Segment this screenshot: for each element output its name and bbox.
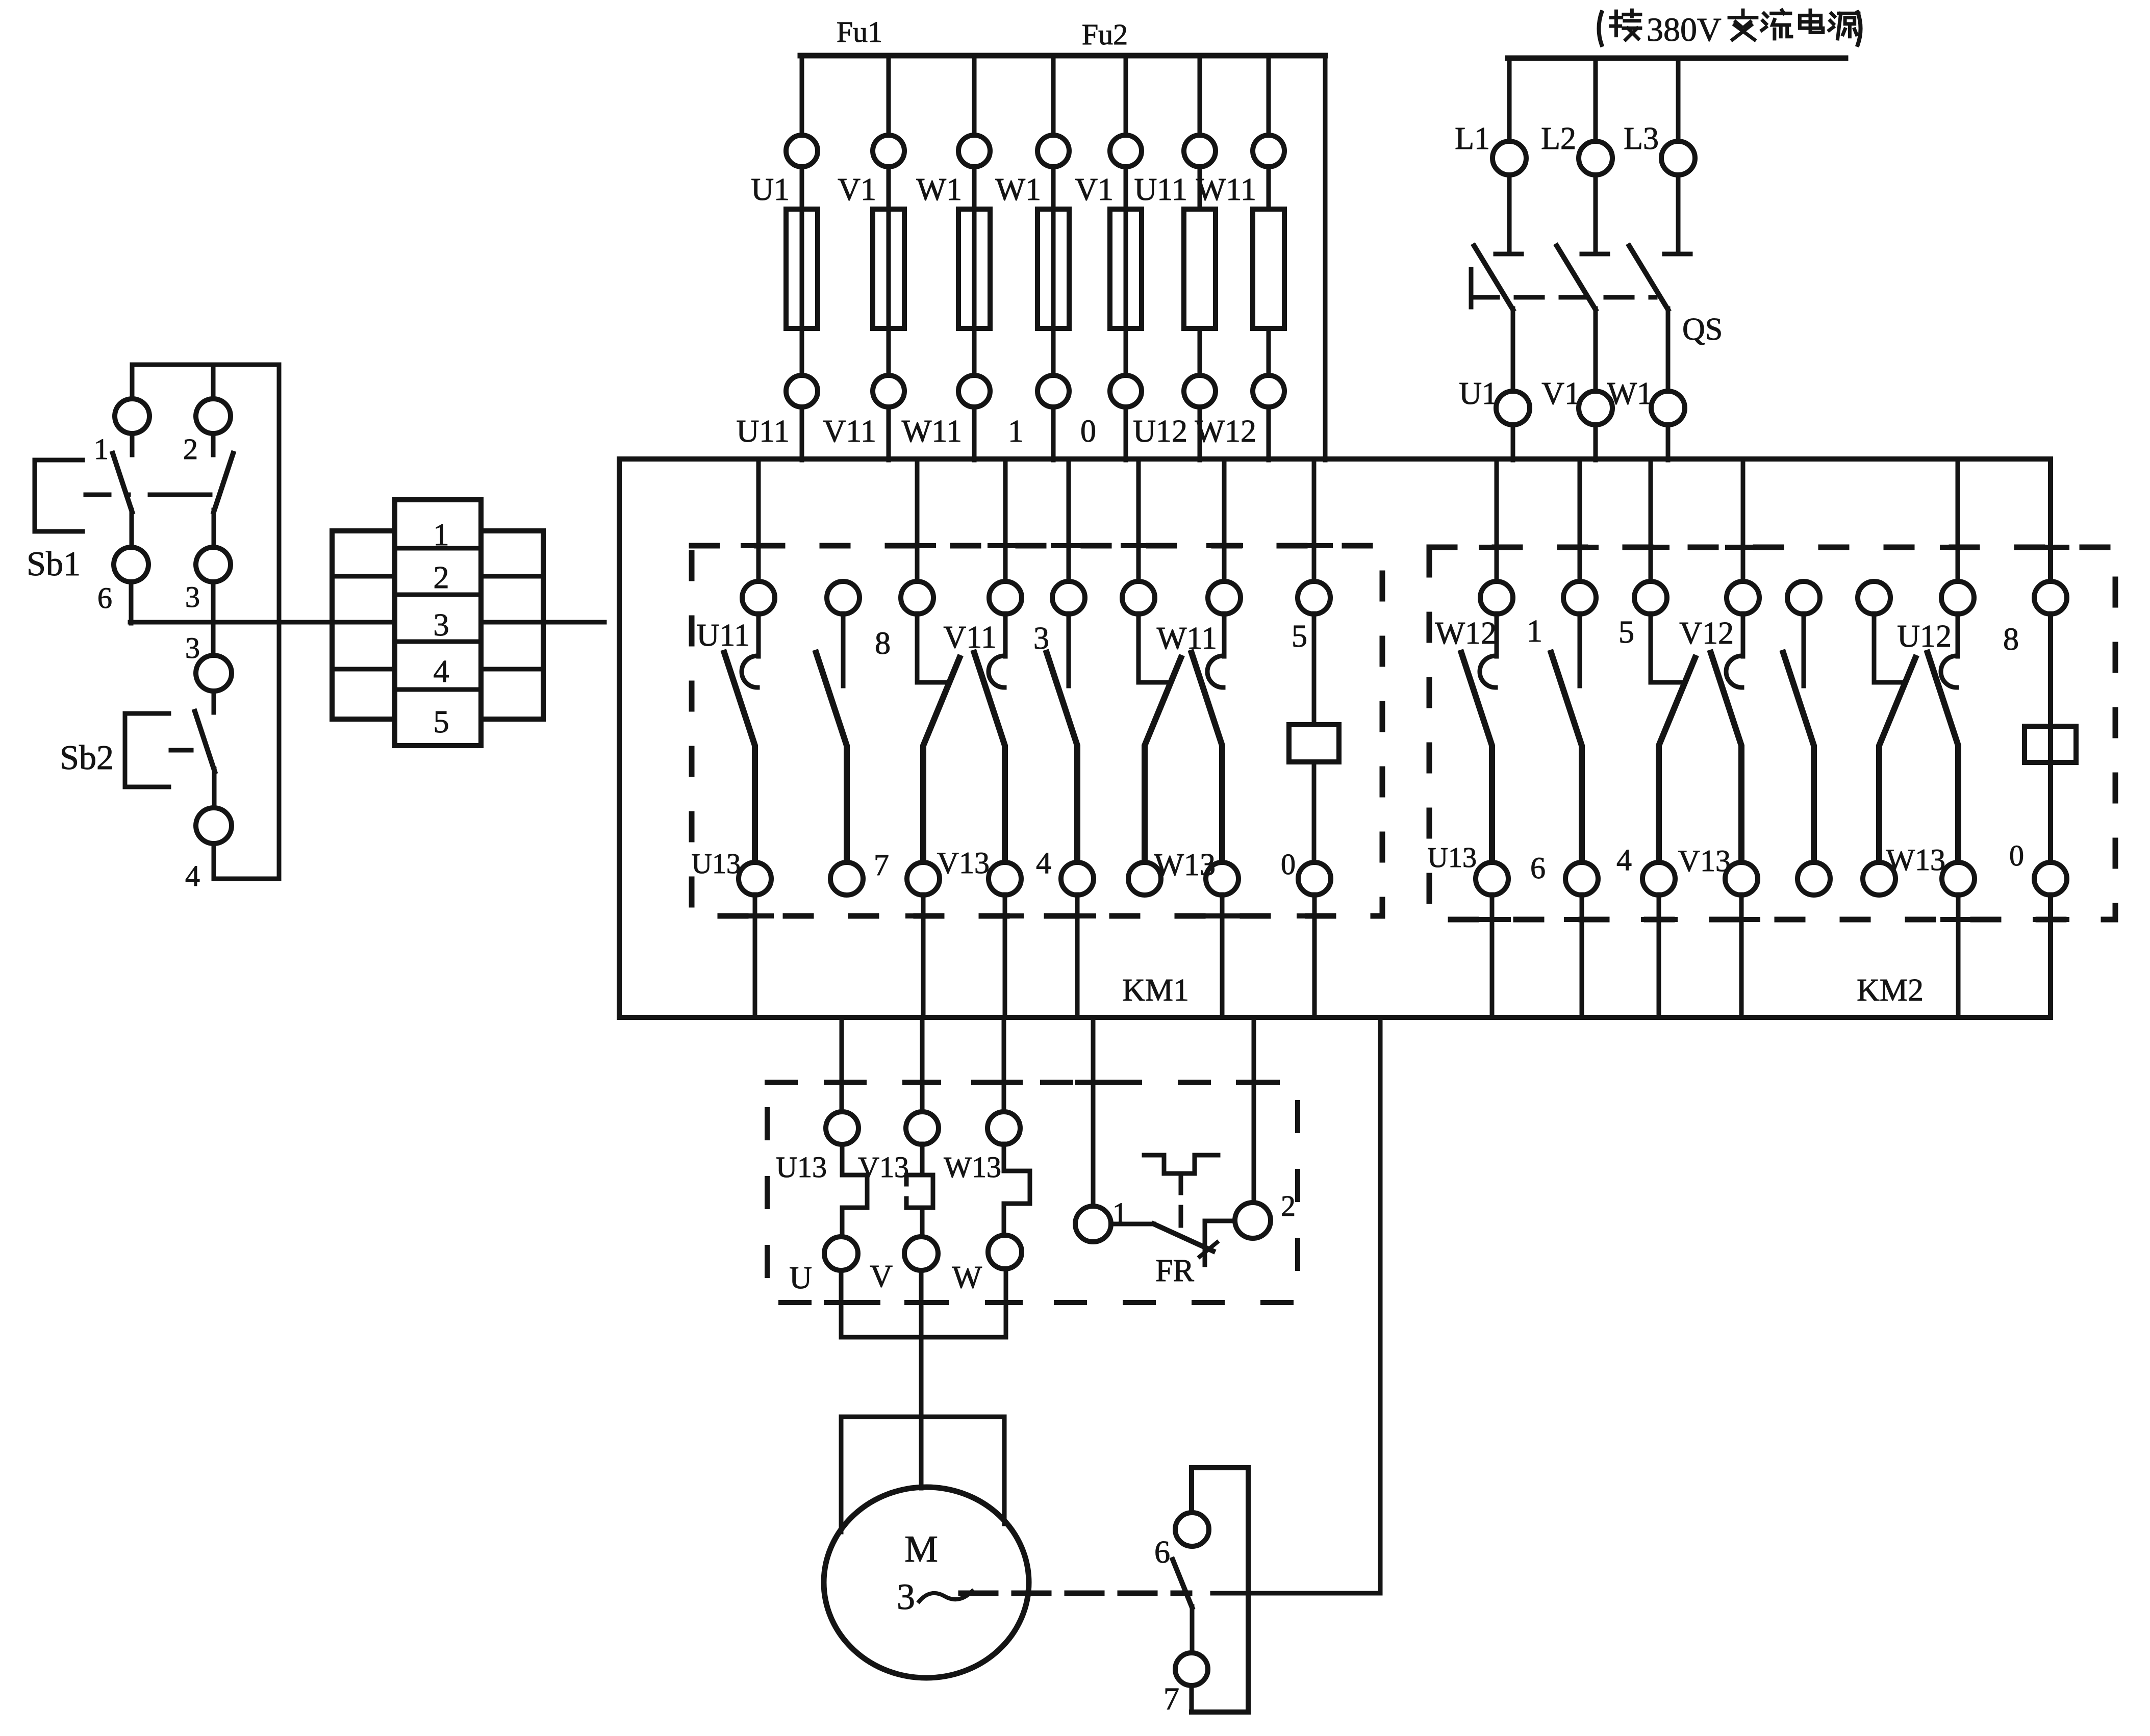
wire bus right drop bbox=[1323, 56, 1328, 460]
winding jog V left flag2 bbox=[906, 1198, 922, 1208]
terminal circle V bbox=[904, 1237, 938, 1270]
contact terminal KM1 pole 5 bottom bbox=[1061, 862, 1094, 895]
wire Sb2 bottom link bbox=[214, 877, 279, 881]
svg-text:Sb2: Sb2 bbox=[60, 738, 114, 777]
contact terminal KM1 pole 3 bottom bbox=[907, 862, 940, 895]
svg-text:V13: V13 bbox=[937, 846, 990, 880]
FR heater element bbox=[1144, 1155, 1218, 1173]
svg-text:0: 0 bbox=[1080, 414, 1096, 449]
wire Sb2 blade to terminal 4 bbox=[212, 769, 217, 808]
fuse FU2 element wire bbox=[887, 209, 891, 328]
label 380V AC supply (Chinese) bbox=[1599, 10, 1860, 48]
svg-text:W13: W13 bbox=[944, 1151, 1001, 1184]
fixed contact lead KM1 pole 6 bbox=[1139, 614, 1169, 682]
svg-text:V13: V13 bbox=[858, 1151, 909, 1184]
fuse FU3 body bbox=[958, 209, 990, 328]
speed switch blade bbox=[1173, 1560, 1192, 1607]
moving contact blade KM2 pole 4 bbox=[1711, 653, 1741, 863]
wire Sb1 blade to terminal 3 bbox=[212, 510, 216, 547]
wire bus to fuse FU5 top terminal bbox=[1124, 56, 1128, 136]
svg-text:W1: W1 bbox=[916, 172, 962, 207]
dash tick KM1 coil top crossing bbox=[1299, 543, 1330, 548]
terminal circle fuse FU4 top bbox=[1038, 135, 1069, 167]
svg-text:U11: U11 bbox=[1134, 172, 1187, 207]
wire KM1 pole 7 bottom to panel bbox=[1220, 895, 1225, 1017]
terminal strip left column bbox=[332, 531, 395, 719]
wire KM2 pole 7 bottom to panel bbox=[1956, 895, 1961, 1017]
wire Sb1 right loop vertical bbox=[277, 365, 282, 879]
dash tick KM1 pole 1 top crossing bbox=[743, 543, 775, 548]
svg-text:U1: U1 bbox=[751, 172, 790, 207]
wire panel edge to KM2 coil top bbox=[2048, 459, 2053, 582]
terminal circle U bbox=[824, 1237, 858, 1270]
terminal circle V13 bbox=[906, 1112, 939, 1144]
wire L2 to QS contact bbox=[1593, 175, 1598, 252]
dash tick KM1 pole 7 top crossing bbox=[1209, 543, 1241, 548]
moving contact blade KM2 pole 5 bbox=[1783, 653, 1814, 863]
svg-text:5: 5 bbox=[434, 705, 449, 739]
dash tick crossing bbox=[1078, 1080, 1109, 1085]
svg-text:W13: W13 bbox=[1154, 848, 1216, 882]
FR terminal circle 1 bbox=[1075, 1206, 1111, 1242]
contact terminal KM2 pole 7 top bbox=[1941, 581, 1974, 614]
svg-text:7: 7 bbox=[1163, 1682, 1179, 1717]
speed switch terminal 7 bbox=[1175, 1653, 1208, 1686]
fixed contact lead KM1 pole 7 bbox=[1222, 614, 1227, 656]
contact terminal KM2 pole 4 top bbox=[1727, 581, 1759, 614]
fixed contact hook KM2 pole 7 bbox=[1941, 656, 1957, 687]
terminal strip cell line bbox=[332, 574, 395, 579]
winding jog V left flag bbox=[906, 1175, 922, 1184]
terminal circle Sb2-3 bbox=[196, 655, 232, 691]
svg-text:Fu1: Fu1 bbox=[837, 15, 882, 48]
dash tick KM1 pole 3 bottom crossing bbox=[908, 913, 940, 918]
svg-text:8: 8 bbox=[875, 626, 891, 661]
KM1 dashed outline bbox=[692, 546, 1382, 916]
svg-text:V12: V12 bbox=[1679, 616, 1734, 651]
svg-text:2: 2 bbox=[1281, 1189, 1296, 1222]
svg-text:1: 1 bbox=[434, 518, 449, 552]
motor terminal dashed box bbox=[767, 1082, 1298, 1303]
contact terminal KM2 pole 5 top bbox=[1787, 581, 1820, 614]
panel enclosure box bbox=[619, 459, 2051, 1017]
svg-text:U11: U11 bbox=[697, 618, 750, 653]
dash tick KM1 pole 5 top crossing bbox=[1053, 543, 1085, 548]
wire fuse FU5 body to bottom terminal bbox=[1124, 328, 1128, 375]
terminal strip cell line bbox=[332, 667, 395, 672]
wire bus to fuse FU7 top terminal bbox=[1267, 56, 1271, 136]
dash tick KM2 pole 3 bottom crossing bbox=[1643, 917, 1675, 922]
svg-text:U: U bbox=[789, 1261, 812, 1295]
wire U-W link bbox=[841, 1335, 1006, 1340]
terminal circle W1 bbox=[1651, 391, 1685, 425]
svg-text:8: 8 bbox=[2003, 622, 2019, 657]
wire fuse FU3 terminal to body bbox=[972, 167, 977, 209]
FR fixed lead left bbox=[1111, 1222, 1154, 1227]
wire panel to KM1 pole 1 top bbox=[756, 459, 761, 582]
wire Sb1 top link bbox=[132, 363, 279, 367]
wire panel to KM1 pole 3 top bbox=[915, 459, 920, 582]
wire U down bbox=[839, 1270, 844, 1337]
wire fuse FU7 bottom terminal to panel bbox=[1267, 407, 1271, 460]
contact terminal KM1 pole 6 top bbox=[1122, 581, 1155, 614]
wire fuse FU3 bottom terminal to panel bbox=[972, 407, 977, 460]
dash tick crossing bbox=[1238, 1080, 1270, 1085]
wire panel to KM2 pole 4 top bbox=[1741, 459, 1746, 582]
svg-text:V11: V11 bbox=[944, 620, 997, 655]
fixed contact lead KM2 pole 7 bbox=[1956, 614, 1960, 656]
terminal circle L1 bbox=[1493, 141, 1526, 175]
wire fuse FU1 terminal to body bbox=[800, 167, 804, 209]
wire panel to KM1 pole 7 top bbox=[1222, 459, 1227, 582]
svg-text:W12: W12 bbox=[1195, 414, 1256, 449]
fixed contact hook KM2 pole 1 bbox=[1480, 656, 1496, 687]
fixed contact lead KM2 pole 4 bbox=[1741, 614, 1746, 656]
dash tick KM1 coil bottom crossing bbox=[1299, 913, 1331, 918]
wire KM2 coil bottom to panel corner bbox=[2048, 895, 2053, 1017]
contact terminal KM1 pole 2 top bbox=[827, 581, 859, 614]
wire Sb2-3 lead bbox=[212, 691, 216, 712]
terminal circle W bbox=[988, 1235, 1022, 1269]
wire KM2 pole 3 bottom to panel bbox=[1657, 895, 1661, 1017]
fuse FU4 element wire bbox=[1051, 209, 1056, 328]
contact terminal KM2 pole 1 bottom bbox=[1476, 862, 1508, 895]
Sb1 linkage bar bbox=[150, 493, 210, 497]
contact terminal KM1 pole 3 top bbox=[901, 581, 933, 614]
fixed contact lead KM2 pole 5 bbox=[1802, 614, 1806, 686]
terminal circle fuse FU6 top bbox=[1184, 135, 1216, 167]
fuse FU4 body bbox=[1038, 209, 1069, 328]
QS linkage dashed bbox=[1471, 295, 1655, 300]
dash tick KM1 pole 6 top crossing bbox=[1123, 543, 1155, 548]
FR terminal circle 2 bbox=[1235, 1203, 1271, 1238]
svg-text:3: 3 bbox=[185, 631, 200, 665]
FR actuator dashed stem bbox=[1179, 1175, 1183, 1226]
terminal circle Sb1-6 bbox=[114, 547, 148, 582]
wire panel to KM1 pole 4 top bbox=[1003, 459, 1008, 582]
svg-text:L3: L3 bbox=[1624, 121, 1659, 156]
svg-text:V1: V1 bbox=[838, 172, 876, 207]
wire blade to terminal 7 bbox=[1190, 1606, 1195, 1653]
svg-text:KM1: KM1 bbox=[1122, 973, 1189, 1008]
dash tick crossing bbox=[907, 1300, 939, 1305]
fuse FU5 body bbox=[1110, 209, 1142, 328]
svg-text:380V: 380V bbox=[1647, 11, 1722, 48]
wire fuse FU1 bottom terminal to panel bbox=[800, 407, 804, 460]
contact terminal KM1 pole 4 top bbox=[989, 581, 1022, 614]
winding jog V bbox=[922, 1144, 933, 1239]
wire KM2 coil lead bottom bbox=[2048, 762, 2053, 863]
terminal strip cell line bbox=[395, 640, 481, 644]
contact terminal KM2 pole 4 bottom bbox=[1725, 862, 1758, 895]
svg-text:FR: FR bbox=[1155, 1254, 1194, 1288]
KM2 dashed outline bbox=[1429, 547, 2115, 920]
dash tick KM2 pole 4 bottom crossing bbox=[1726, 917, 1758, 922]
fixed contact lead KM1 pole 2 bbox=[841, 614, 846, 686]
terminal circle V1 bbox=[1579, 391, 1612, 425]
wire KM1 pole 1 bottom to panel bbox=[753, 895, 757, 1017]
wire fuse FU2 body to bottom terminal bbox=[887, 328, 891, 375]
wire panel to motor terminal V13 bbox=[920, 1017, 925, 1112]
FR contact blade bbox=[1154, 1224, 1213, 1251]
svg-text:V1: V1 bbox=[1075, 172, 1114, 207]
svg-text:6: 6 bbox=[97, 581, 112, 615]
wire fuse FU4 bottom terminal to panel bbox=[1051, 407, 1056, 460]
fixed contact lead KM1 pole 5 bbox=[1067, 614, 1071, 686]
wire linkage to speed switch bbox=[1212, 1591, 1380, 1596]
svg-text:0: 0 bbox=[2009, 839, 2024, 872]
fixed contact lead KM1 pole 3 bbox=[917, 614, 948, 682]
moving contact blade KM1 pole 4 bbox=[974, 653, 1005, 863]
moving contact blade KM2 pole 6 bbox=[1879, 658, 1915, 863]
coil terminal KM1 bottom bbox=[1298, 862, 1331, 895]
terminal circle fuse FU5 bottom bbox=[1110, 375, 1142, 407]
wire KM2 pole 2 bottom to panel bbox=[1580, 895, 1584, 1017]
svg-text:6: 6 bbox=[1154, 1535, 1170, 1570]
contact terminal KM1 pole 6 bottom bbox=[1128, 862, 1161, 895]
fixed contact lead KM1 pole 1 bbox=[756, 614, 761, 656]
svg-text:V11: V11 bbox=[823, 414, 876, 449]
wire Sb1-3 to Sb2-3 bbox=[211, 582, 216, 656]
fixed contact hook KM2 pole 4 bbox=[1726, 656, 1742, 687]
dash tick crossing bbox=[989, 1080, 1020, 1085]
Sb1 blade left (NC) bbox=[113, 453, 132, 512]
contact terminal KM1 pole 7 bottom bbox=[1206, 862, 1238, 895]
svg-text:6: 6 bbox=[1530, 851, 1546, 885]
terminal strip center column bbox=[395, 500, 481, 746]
svg-text:V: V bbox=[870, 1259, 893, 1294]
dash tick crossing bbox=[907, 1080, 939, 1085]
wire KM1 coil lead bottom bbox=[1312, 762, 1317, 863]
wire panel to KM2 pole 1 top bbox=[1495, 459, 1499, 582]
svg-text:W1: W1 bbox=[1607, 376, 1653, 411]
wire Sb2-4 down bbox=[212, 844, 216, 879]
wire KM1 pole 3 bottom to panel bbox=[921, 895, 926, 1017]
QS blade U1 pole bbox=[1474, 246, 1513, 310]
svg-text:L1: L1 bbox=[1455, 121, 1490, 156]
svg-text:3: 3 bbox=[185, 580, 200, 614]
terminal circle Sb2-4 bbox=[196, 808, 232, 844]
wire supply to L2 terminal bbox=[1593, 58, 1598, 141]
wire panel to KM2 pole 7 top bbox=[1956, 459, 1960, 582]
QS blade V1 pole bbox=[1557, 246, 1596, 310]
Sb1 linkage dashed bbox=[86, 493, 129, 497]
moving contact blade KM1 pole 5 bbox=[1047, 653, 1077, 863]
wire V1 terminal to panel bbox=[1593, 425, 1598, 460]
dash tick KM2 pole 7 top crossing bbox=[1942, 545, 1974, 550]
dash tick KM2 coil bottom crossing bbox=[2035, 917, 2067, 922]
svg-text:4: 4 bbox=[185, 859, 200, 892]
terminal strip cell line bbox=[395, 593, 481, 597]
wire control bus bbox=[130, 620, 395, 625]
contact terminal KM2 pole 5 bottom bbox=[1798, 862, 1830, 895]
terminal circle fuse FU5 top bbox=[1110, 135, 1142, 167]
fuse FU6 body bbox=[1184, 209, 1216, 328]
terminal circle Sb1-2 bbox=[196, 399, 231, 433]
contact terminal KM1 pole 7 top bbox=[1208, 581, 1241, 614]
terminal circle fuse FU3 bottom bbox=[958, 375, 990, 407]
fixed contact lead KM2 pole 2 bbox=[1578, 614, 1582, 686]
wire Sb1-6 to control bus bbox=[129, 582, 134, 623]
svg-text:Fu2: Fu2 bbox=[1082, 18, 1128, 51]
dash tick KM2 pole 7 bottom crossing bbox=[1943, 917, 1975, 922]
coil KM1 bbox=[1289, 725, 1339, 762]
wire fuse FU6 terminal to body bbox=[1198, 167, 1202, 209]
QS fixed contact bar L3 bbox=[1664, 252, 1690, 257]
svg-text:4: 4 bbox=[1036, 846, 1051, 880]
svg-text:1: 1 bbox=[1527, 614, 1542, 649]
wire fuse FU1 body to bottom terminal bbox=[800, 328, 804, 375]
contact terminal KM1 pole 5 top bbox=[1052, 581, 1085, 614]
wire fuse FU7 terminal to body bbox=[1267, 167, 1271, 209]
svg-text:W13: W13 bbox=[1886, 843, 1945, 877]
fixed contact lead KM1 pole 4 bbox=[1003, 614, 1008, 656]
fixed contact hook KM1 pole 1 bbox=[742, 656, 757, 687]
terminal strip cell line bbox=[481, 574, 543, 579]
FR fixed lead right bbox=[1205, 1221, 1235, 1265]
wire KM2 pole 4 bottom to panel bbox=[1739, 895, 1744, 1017]
wire QS blade to U1 terminal bbox=[1511, 309, 1515, 392]
contact terminal KM2 pole 2 top bbox=[1563, 581, 1596, 614]
moving contact blade KM1 pole 2 bbox=[816, 653, 847, 863]
terminal circle fuse FU1 bottom bbox=[786, 375, 818, 407]
coil KM2 bbox=[2025, 726, 2076, 762]
QS blade W1 pole bbox=[1629, 246, 1668, 310]
contact terminal KM2 pole 1 top bbox=[1480, 581, 1513, 614]
contact terminal KM1 pole 2 bottom bbox=[830, 862, 863, 895]
wire V to motor bbox=[919, 1271, 924, 1488]
wire U1 terminal to panel bbox=[1511, 425, 1515, 460]
svg-text:W11: W11 bbox=[1157, 621, 1217, 656]
wire bus to fuse FU3 top terminal bbox=[972, 56, 977, 136]
dash tick KM2 pole 2 bottom crossing bbox=[1566, 917, 1598, 922]
wire fuse FU4 terminal to body bbox=[1051, 167, 1056, 209]
moving contact blade KM1 pole 3 bbox=[923, 658, 959, 863]
terminal circle fuse FU1 top bbox=[786, 135, 818, 167]
contact terminal KM1 pole 1 top bbox=[742, 581, 775, 614]
fixed contact lead KM2 pole 6 bbox=[1874, 614, 1905, 682]
wire fuse FU5 terminal to body bbox=[1124, 167, 1128, 209]
svg-text:2: 2 bbox=[434, 560, 449, 595]
QS fixed contact bar L1 bbox=[1496, 252, 1522, 257]
moving contact blade KM2 pole 1 bbox=[1461, 653, 1492, 863]
svg-text:3: 3 bbox=[1033, 621, 1049, 656]
dash tick KM2 pole 1 top crossing bbox=[1481, 545, 1513, 550]
svg-text:QS: QS bbox=[1682, 312, 1723, 347]
terminal circle fuse FU2 bottom bbox=[873, 375, 904, 407]
contact terminal KM2 pole 3 top bbox=[1634, 581, 1667, 614]
wire QS blade to V1 terminal bbox=[1593, 309, 1598, 392]
Sb2 linkage dashed bbox=[171, 748, 193, 753]
wire terminal 7 down bbox=[1190, 1686, 1194, 1712]
Sb1 button bracket bbox=[35, 460, 83, 531]
wire panel to KM1 coil top bbox=[1312, 459, 1317, 582]
terminal strip cell line bbox=[395, 546, 481, 551]
svg-text:U13: U13 bbox=[692, 848, 741, 880]
wire panel to FR terminal 1 bbox=[1091, 1017, 1096, 1206]
wire top link to Sb1 contact 2 bbox=[211, 365, 216, 399]
speed switch frame bbox=[1192, 1468, 1248, 1712]
wire fuse FU5 bottom terminal to panel bbox=[1124, 407, 1128, 460]
fixed contact hook KM1 pole 4 bbox=[989, 656, 1004, 687]
wire fuse FU6 bottom terminal to panel bbox=[1198, 407, 1202, 460]
terminal strip cell line bbox=[481, 667, 543, 672]
contact terminal KM2 pole 7 bottom bbox=[1942, 862, 1975, 895]
terminal circle L3 bbox=[1661, 141, 1695, 175]
wire panel to motor terminal W13 bbox=[1002, 1017, 1006, 1112]
wire W down bbox=[1004, 1271, 1008, 1337]
fuse FU1 element wire bbox=[800, 209, 804, 328]
dash tick crossing bbox=[826, 1300, 858, 1305]
svg-text:U11: U11 bbox=[737, 414, 790, 449]
svg-text:U1: U1 bbox=[1459, 376, 1498, 411]
contact terminal KM1 pole 1 bottom bbox=[739, 862, 771, 895]
wire KM1 pole 4 bottom to panel bbox=[1003, 895, 1007, 1017]
svg-text:1: 1 bbox=[94, 432, 109, 466]
wire panel to speed switch bbox=[1378, 1017, 1383, 1593]
moving contact blade KM2 pole 2 bbox=[1551, 653, 1582, 863]
QS operating handle bbox=[1469, 269, 1474, 307]
wire panel to KM2 pole 3 top bbox=[1649, 459, 1653, 582]
wire fuse FU3 body to bottom terminal bbox=[972, 328, 977, 375]
wire control bus right bbox=[481, 620, 604, 625]
wire bus to fuse FU1 top terminal bbox=[800, 56, 804, 136]
terminal circle fuse FU6 bottom bbox=[1184, 375, 1216, 407]
dash tick KM1 pole 4 top crossing bbox=[990, 543, 1022, 548]
wire KM1 coil lead top bbox=[1312, 614, 1317, 725]
wire 380V supply line bbox=[1508, 56, 1845, 61]
wire W1 terminal to panel bbox=[1666, 425, 1671, 460]
svg-text:3: 3 bbox=[434, 608, 449, 643]
fuse FU2 body bbox=[873, 209, 904, 328]
wire KM2 pole 1 bottom to panel bbox=[1490, 895, 1495, 1017]
terminal circle U1 bbox=[1496, 391, 1530, 425]
svg-text:5: 5 bbox=[1618, 615, 1634, 650]
svg-text:W11: W11 bbox=[1196, 172, 1256, 207]
wire KM1 pole 5 bottom to panel bbox=[1075, 895, 1080, 1017]
svg-text:L2: L2 bbox=[1541, 121, 1576, 156]
Sb2 button bracket bbox=[125, 713, 169, 787]
moving contact blade KM1 pole 7 bbox=[1192, 653, 1222, 863]
wire L3 to QS contact bbox=[1676, 175, 1681, 252]
svg-text:W11: W11 bbox=[902, 414, 962, 449]
svg-text:0: 0 bbox=[1281, 848, 1296, 881]
coil terminal KM2 top bbox=[2034, 581, 2067, 614]
wire KM2 coil lead top bbox=[2048, 614, 2053, 726]
svg-text:4: 4 bbox=[1616, 843, 1632, 877]
terminal circle fuse FU4 bottom bbox=[1038, 375, 1069, 407]
wire fuse FU7 body to bottom terminal bbox=[1267, 328, 1271, 375]
winding jog U bbox=[842, 1144, 867, 1237]
svg-text:U12: U12 bbox=[1133, 414, 1187, 449]
wire bus to fuse FU6 top terminal bbox=[1198, 56, 1202, 136]
svg-text:V1: V1 bbox=[1541, 376, 1580, 411]
contact terminal KM2 pole 2 bottom bbox=[1565, 862, 1598, 895]
fuse FU5 element wire bbox=[1124, 209, 1128, 328]
dash tick KM2 coil top crossing bbox=[2035, 545, 2067, 550]
dash tick crossing bbox=[826, 1080, 858, 1085]
svg-text:W12: W12 bbox=[1435, 616, 1497, 651]
contact terminal KM2 pole 6 top bbox=[1858, 581, 1890, 614]
Sb2 blade bbox=[195, 711, 215, 772]
svg-text:U13: U13 bbox=[776, 1151, 827, 1184]
dash tick KM2 pole 2 top crossing bbox=[1564, 545, 1596, 550]
fuse FU3 element wire bbox=[972, 209, 977, 328]
wire fuse FU4 body to bottom terminal bbox=[1051, 328, 1056, 375]
wire panel to KM1 pole 5 top bbox=[1067, 459, 1071, 582]
contact terminal KM2 pole 6 bottom bbox=[1863, 862, 1895, 895]
dash tick KM2 pole 3 top crossing bbox=[1635, 545, 1667, 550]
